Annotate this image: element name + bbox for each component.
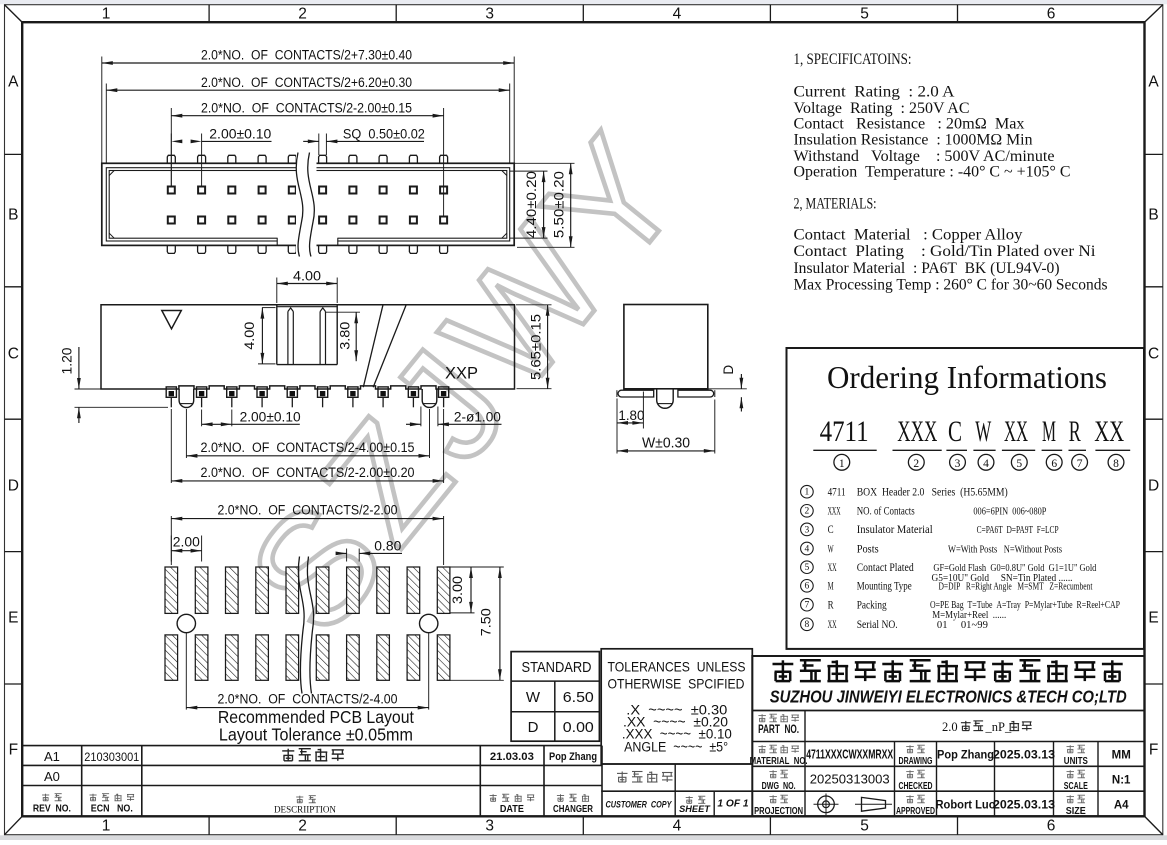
svg-text:SQ 0.50±0.02: SQ 0.50±0.02 xyxy=(343,127,425,143)
svg-text:6.50: 6.50 xyxy=(563,689,594,706)
svg-text:XX: XX xyxy=(1004,415,1028,448)
svg-text:SIZE: SIZE xyxy=(1066,805,1086,817)
svg-text:2: 2 xyxy=(913,458,919,470)
svg-text:NO. of Contacts: NO. of Contacts xyxy=(857,504,915,518)
svg-text:Current Rating : 2.0 A: Current Rating : 2.0 A xyxy=(794,84,955,101)
svg-text:2: 2 xyxy=(298,818,307,835)
svg-text:2.0*NO. OF CONTACTS/2-2.00: 2.0*NO. OF CONTACTS/2-2.00 xyxy=(218,503,398,519)
svg-text:DATE: DATE xyxy=(500,804,524,815)
svg-text:XX: XX xyxy=(828,560,837,574)
svg-text:5: 5 xyxy=(860,6,869,23)
svg-text:C: C xyxy=(828,522,834,536)
svg-text:OTHERWISE SPCIFIED: OTHERWISE SPCIFIED xyxy=(608,677,745,692)
svg-text:1: 1 xyxy=(102,6,111,23)
svg-text:4.00: 4.00 xyxy=(242,322,258,350)
svg-text:7.50: 7.50 xyxy=(479,608,495,636)
svg-text:SHEET: SHEET xyxy=(679,804,711,814)
svg-text:2.0*NO. OF CONTACTS/2-4.00: 2.0*NO. OF CONTACTS/2-4.00 xyxy=(218,692,398,708)
svg-text:Contact Plated: Contact Plated xyxy=(857,560,914,574)
svg-text:SUZHOU JINWEIYI ELECTRONICS &T: SUZHOU JINWEIYI ELECTRONICS &TECH CO;LTD xyxy=(770,687,1127,707)
svg-text:Robort Luo: Robort Luo xyxy=(936,798,996,812)
svg-text:UNITS: UNITS xyxy=(1064,755,1088,767)
svg-text:W=With Posts N=Without Posts: W=With Posts N=Without Posts xyxy=(948,543,1062,555)
svg-text:1: 1 xyxy=(102,818,111,835)
svg-text:3: 3 xyxy=(805,525,810,535)
svg-text:W: W xyxy=(828,541,834,555)
svg-text:5: 5 xyxy=(1016,458,1022,470)
svg-text:7: 7 xyxy=(805,601,810,611)
svg-text:CUSTOMER COPY: CUSTOMER COPY xyxy=(606,800,673,810)
svg-text:Contact Material : Copper A: Contact Material : Copper Alloy xyxy=(794,227,1023,244)
svg-text:4711XXXCWXXMRXX: 4711XXXCWXXMRXX xyxy=(806,747,893,762)
svg-text:6: 6 xyxy=(805,582,810,592)
svg-text:Contact Plating : Gold/Tin: Contact Plating : Gold/Tin Plated over N… xyxy=(794,243,1097,260)
svg-text:Ordering Informations: Ordering Informations xyxy=(827,359,1107,395)
svg-text:XX: XX xyxy=(1094,415,1124,448)
svg-text:4: 4 xyxy=(673,818,682,835)
svg-text:A: A xyxy=(1148,74,1159,91)
svg-text:2.00: 2.00 xyxy=(173,535,200,551)
svg-text:2.0*NO. OF CONTACTS/2-2.00±0: 2.0*NO. OF CONTACTS/2-2.00±0.15 xyxy=(201,100,412,116)
svg-text:2.00±0.10: 2.00±0.10 xyxy=(209,127,271,143)
svg-text:F: F xyxy=(1149,742,1158,759)
svg-text:R: R xyxy=(1069,415,1081,448)
svg-text:D: D xyxy=(1148,478,1159,495)
svg-text:A0: A0 xyxy=(44,769,60,784)
svg-text:4: 4 xyxy=(983,458,989,470)
svg-text:2025.03.13: 2025.03.13 xyxy=(993,798,1055,812)
svg-text:Contact Resistance : 20mΩ: Contact Resistance : 20mΩ Max xyxy=(794,115,1025,132)
svg-text:XXP: XXP xyxy=(445,365,478,383)
svg-text:1, SPECIFICATOINS:: 1, SPECIFICATOINS: xyxy=(794,51,912,68)
svg-text:2.0*NO. OF CONTACTS/2+6.20±0: 2.0*NO. OF CONTACTS/2+6.20±0.30 xyxy=(201,75,412,91)
svg-text:W±0.30: W±0.30 xyxy=(642,435,690,452)
svg-text:2: 2 xyxy=(805,507,810,517)
svg-text:R: R xyxy=(828,598,834,612)
svg-text:4711: 4711 xyxy=(820,415,869,448)
svg-text:1: 1 xyxy=(839,458,845,470)
svg-text:1.20: 1.20 xyxy=(60,347,76,374)
svg-text:Voltage Rating : 250V AC: Voltage Rating : 250V AC xyxy=(794,100,970,117)
svg-text:3.80: 3.80 xyxy=(337,322,353,350)
svg-text:5.50±0.20: 5.50±0.20 xyxy=(551,171,567,238)
svg-text:XX: XX xyxy=(828,617,837,631)
svg-text:Insulation Resistance : 1000M: Insulation Resistance : 1000MΩ Min xyxy=(794,132,1033,149)
svg-text:D: D xyxy=(8,478,19,495)
svg-text:APPROVED: APPROVED xyxy=(896,805,935,817)
svg-text:3: 3 xyxy=(955,458,961,470)
svg-text:B: B xyxy=(8,207,18,224)
svg-text:E: E xyxy=(8,610,18,627)
svg-text:_nP_: _nP_ xyxy=(985,720,1012,734)
svg-text:M: M xyxy=(828,579,834,593)
svg-text:C: C xyxy=(1148,346,1159,363)
svg-text:4.00: 4.00 xyxy=(293,268,321,284)
svg-text:M: M xyxy=(1042,415,1056,448)
svg-text:5: 5 xyxy=(860,818,869,835)
svg-text:XXX: XXX xyxy=(828,504,841,518)
svg-text:8: 8 xyxy=(1113,458,1119,470)
svg-text:2, MATERIALS:: 2, MATERIALS: xyxy=(794,195,877,212)
svg-text:Max Processing Temp : 260° C f: Max Processing Temp : 260° C for 30~60 S… xyxy=(794,276,1108,293)
svg-text:1: 1 xyxy=(805,488,810,498)
svg-text:2025.03.13: 2025.03.13 xyxy=(993,748,1055,762)
svg-text:DRAWING: DRAWING xyxy=(899,755,933,767)
svg-text:DWG NO.: DWG NO. xyxy=(762,780,796,792)
svg-text:MM: MM xyxy=(1112,750,1131,762)
svg-text:C: C xyxy=(948,415,962,448)
svg-text:2: 2 xyxy=(298,6,307,23)
svg-text:W: W xyxy=(526,689,541,706)
svg-text:20250313003: 20250313003 xyxy=(810,772,890,787)
svg-text:Serial NO.: Serial NO. xyxy=(857,617,898,631)
svg-text:XXX: XXX xyxy=(897,415,937,448)
svg-text:TOLERANCES UNLESS: TOLERANCES UNLESS xyxy=(608,660,746,675)
svg-text:2.00±0.10: 2.00±0.10 xyxy=(240,409,301,425)
svg-text:3: 3 xyxy=(485,6,494,23)
svg-text:B: B xyxy=(1148,207,1158,224)
svg-text:6: 6 xyxy=(1047,6,1056,23)
svg-text:1 OF 1: 1 OF 1 xyxy=(717,799,748,810)
svg-text:Insulator Material: Insulator Material xyxy=(857,522,934,536)
svg-text:0.00: 0.00 xyxy=(563,719,594,736)
svg-text:2.0: 2.0 xyxy=(942,720,958,734)
svg-text:MATERIAL NO.: MATERIAL NO. xyxy=(750,756,808,767)
svg-text:Pop Zhang: Pop Zhang xyxy=(937,748,994,762)
svg-text:Mounting Type: Mounting Type xyxy=(857,579,912,593)
svg-text:4711: 4711 xyxy=(828,485,846,499)
svg-text:DESCRIIPTION: DESCRIIPTION xyxy=(274,805,336,815)
svg-text:8: 8 xyxy=(805,620,810,630)
svg-text:5.65±0.15: 5.65±0.15 xyxy=(528,314,544,380)
svg-text:C=PA6T D=PA9T F=LCP: C=PA6T D=PA9T F=LCP xyxy=(977,524,1059,536)
svg-text:ECN NO.: ECN NO. xyxy=(91,804,133,815)
svg-text:Operation Temperature : -40°: Operation Temperature : -40° C ~ +105° C xyxy=(794,164,1071,181)
svg-text:E: E xyxy=(1148,610,1158,627)
svg-text:G5=10U" Gold SN=Tin Plated: G5=10U" Gold SN=Tin Plated ...... xyxy=(932,572,1073,584)
svg-text:REV NO.: REV NO. xyxy=(33,804,71,815)
svg-text:2.0*NO. OF CONTACTS/2-4.00±0: 2.0*NO. OF CONTACTS/2-4.00±0.15 xyxy=(201,440,415,456)
svg-text:210303001: 210303001 xyxy=(84,750,139,764)
svg-text:7: 7 xyxy=(1077,458,1083,470)
svg-text:3.00: 3.00 xyxy=(450,576,466,604)
svg-text:4.40±0.20: 4.40±0.20 xyxy=(524,171,540,238)
svg-text:6: 6 xyxy=(1051,458,1057,470)
svg-text:STANDARD: STANDARD xyxy=(522,660,592,676)
svg-text:N:1: N:1 xyxy=(1112,775,1131,787)
svg-text:SCALE: SCALE xyxy=(1064,780,1088,792)
svg-text:2.0*NO. OF CONTACTS/2+7.30±0: 2.0*NO. OF CONTACTS/2+7.30±0.40 xyxy=(201,48,412,64)
svg-text:006=6PIN 006~080P: 006=6PIN 006~080P xyxy=(973,506,1046,518)
svg-text:F: F xyxy=(9,742,18,759)
svg-text:M=Mylar+Reel ......: M=Mylar+Reel ...... xyxy=(932,609,1006,621)
svg-text:D: D xyxy=(528,719,539,736)
svg-text:ANGLE ~~~~ ±5°: ANGLE ~~~~ ±5° xyxy=(624,740,728,755)
svg-text:6: 6 xyxy=(1047,818,1056,835)
svg-text:0.80: 0.80 xyxy=(374,539,401,555)
svg-text:D: D xyxy=(721,365,736,375)
svg-text:2.0*NO. OF CONTACTS/2-2.00±0: 2.0*NO. OF CONTACTS/2-2.00±0.20 xyxy=(201,465,415,481)
svg-text:4: 4 xyxy=(673,6,682,23)
svg-text:1.80: 1.80 xyxy=(618,408,644,424)
svg-text:Insulator Material : PA6T BK: Insulator Material : PA6T BK (UL94V-0) xyxy=(794,260,1060,277)
svg-text:Layout Tolerance ±0.05mm: Layout Tolerance ±0.05mm xyxy=(219,725,413,745)
svg-text:21.03.03: 21.03.03 xyxy=(490,751,534,763)
svg-text:PROJECTION: PROJECTION xyxy=(754,805,803,817)
svg-text:CHANGER: CHANGER xyxy=(553,804,594,815)
svg-text:A: A xyxy=(8,74,19,91)
svg-text:PART NO.: PART NO. xyxy=(758,724,799,736)
svg-text:CHECKED: CHECKED xyxy=(899,780,933,792)
svg-text:5: 5 xyxy=(805,563,810,573)
svg-text:BOX Header 2.0 Series (H5.: BOX Header 2.0 Series (H5.65MM) xyxy=(857,485,1008,499)
svg-text:Pop Zhang: Pop Zhang xyxy=(549,751,597,763)
svg-text:4: 4 xyxy=(805,544,810,554)
svg-text:A1: A1 xyxy=(44,749,60,764)
svg-text:3: 3 xyxy=(485,818,494,835)
svg-text:A4: A4 xyxy=(1114,800,1129,812)
svg-text:C: C xyxy=(8,346,19,363)
svg-text:2-ø1.00: 2-ø1.00 xyxy=(454,409,501,425)
svg-text:Packing: Packing xyxy=(857,598,887,612)
svg-text:W: W xyxy=(975,415,991,448)
svg-text:Withstand Voltage : 500V: Withstand Voltage : 500V AC/minute xyxy=(794,148,1055,165)
svg-text:Posts: Posts xyxy=(857,541,879,555)
